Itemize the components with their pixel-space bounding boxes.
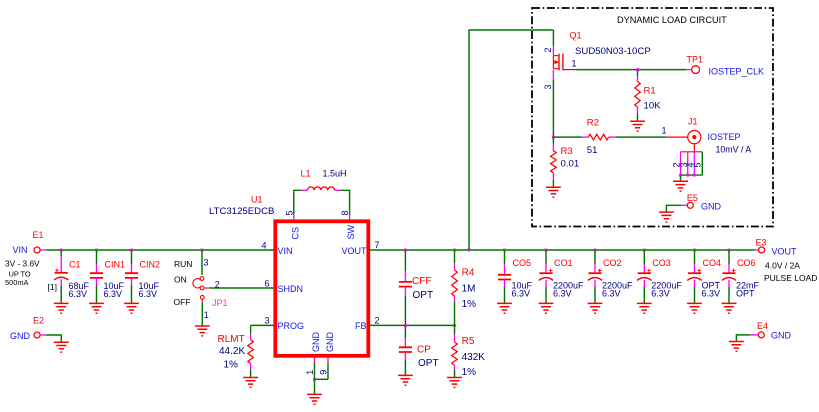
svg-text:10K: 10K xyxy=(644,100,662,111)
svg-text:6: 6 xyxy=(265,279,270,289)
svg-text:432K: 432K xyxy=(462,352,486,363)
ground CO2 xyxy=(588,303,603,313)
wire to C1 xyxy=(60,250,62,256)
R4 bottom lead xyxy=(454,296,456,302)
ground CO4 xyxy=(687,303,702,313)
op-amp U1 LTC3125EDCB body xyxy=(275,221,368,355)
resistor R1 xyxy=(635,82,641,107)
R2 left lead xyxy=(581,136,588,138)
junction CO4/VOUT rail xyxy=(693,249,696,252)
svg-text:OPT: OPT xyxy=(736,289,755,299)
terminal E4 xyxy=(758,332,764,338)
svg-text:TP1: TP1 xyxy=(687,55,704,65)
L1 left lead xyxy=(302,189,308,191)
wire CO6 to ground xyxy=(728,287,730,303)
SW pin stub xyxy=(349,215,351,220)
ground R3 xyxy=(546,187,561,197)
wire CO5 to ground xyxy=(504,287,506,303)
svg-text:R2: R2 xyxy=(587,117,599,128)
E3 pin stub xyxy=(755,249,759,251)
svg-text:6.3V: 6.3V xyxy=(702,289,721,299)
wire to CFF xyxy=(404,250,406,271)
svg-text:3V - 3.6V: 3V - 3.6V xyxy=(5,259,40,269)
wire joining GND pins xyxy=(315,378,329,380)
resistor R2 xyxy=(588,134,608,140)
connector J1 IOSTEP jack xyxy=(688,131,701,144)
svg-text:1: 1 xyxy=(662,126,667,136)
svg-text:10mV / A: 10mV / A xyxy=(716,144,752,154)
wire VIN rail from E1 to U1 VIN pin 4 xyxy=(46,249,273,251)
svg-text:2: 2 xyxy=(375,316,380,326)
svg-text:J1: J1 xyxy=(688,117,698,127)
svg-text:CIN2: CIN2 xyxy=(140,260,161,270)
CO3 bottom lead xyxy=(643,280,645,287)
C1 bottom lead xyxy=(60,279,62,286)
svg-text:R5: R5 xyxy=(462,336,475,347)
svg-text:6.3V: 6.3V xyxy=(512,289,531,299)
svg-text:CO2: CO2 xyxy=(603,258,622,268)
wire E4 to ground xyxy=(736,335,750,342)
svg-text:E1: E1 xyxy=(33,230,44,240)
CFF bottom lead xyxy=(404,287,406,296)
wire down to RLMT xyxy=(250,325,252,333)
TP1 pin stub xyxy=(686,69,691,71)
capacitor CO4 xyxy=(688,272,701,274)
junction R2/R3 xyxy=(552,136,555,139)
svg-text:1%: 1% xyxy=(224,359,239,370)
svg-text:6.3V: 6.3V xyxy=(602,289,621,299)
junction J1 pin 3 xyxy=(686,174,689,177)
wire R2 to J1 xyxy=(616,136,666,138)
capacitor CFF xyxy=(399,282,412,287)
svg-text:PULSE LOAD: PULSE LOAD xyxy=(764,273,817,283)
capacitor CIN1 xyxy=(90,273,103,278)
svg-text:1%: 1% xyxy=(462,367,477,378)
junction CO6/VOUT rail xyxy=(728,249,731,252)
wire CO3 to ground xyxy=(643,287,645,303)
svg-text:C1: C1 xyxy=(69,260,81,270)
wire VOUT to R4 xyxy=(454,250,456,263)
junction dynamic load feed xyxy=(468,249,471,252)
ground RLMT xyxy=(243,378,258,388)
wire CS riser to L1 xyxy=(294,190,302,214)
svg-text:51: 51 xyxy=(587,145,598,156)
svg-text:3: 3 xyxy=(204,258,209,268)
ground E2 xyxy=(54,342,69,352)
junction J1 pin 4 xyxy=(693,174,696,177)
svg-text:RUN: RUN xyxy=(174,259,192,269)
Q1 source lead pin 3 xyxy=(552,70,554,80)
R5 bottom lead xyxy=(454,365,456,370)
R2 right lead xyxy=(609,136,616,138)
svg-text:CO6: CO6 xyxy=(737,258,756,268)
svg-text:6.3V: 6.3V xyxy=(553,289,572,299)
ground J1 xyxy=(673,181,688,191)
wire to CO2 xyxy=(594,250,596,264)
wire to CIN2 xyxy=(131,250,133,264)
junction CFF/VOUT rail xyxy=(404,249,407,252)
svg-text:E4: E4 xyxy=(757,321,768,331)
svg-text:1: 1 xyxy=(572,59,577,69)
CO5 bottom lead xyxy=(504,280,506,288)
wire to U1 ground xyxy=(314,379,316,394)
svg-text:GND: GND xyxy=(325,332,335,353)
svg-text:SUD50N03-10CP: SUD50N03-10CP xyxy=(575,46,651,57)
CO6 top lead xyxy=(728,264,730,273)
resistor R4 xyxy=(452,270,458,296)
wire CO2 to ground xyxy=(594,287,596,303)
capacitor CP xyxy=(399,347,412,352)
svg-text:9: 9 xyxy=(318,370,328,375)
svg-text:1: 1 xyxy=(305,370,315,375)
svg-text:IOSTEP_CLK: IOSTEP_CLK xyxy=(709,67,765,77)
svg-text:4.0V / 2A: 4.0V / 2A xyxy=(765,261,800,271)
svg-text:OPT: OPT xyxy=(418,358,439,369)
CO2 bottom lead xyxy=(594,280,596,287)
svg-text:IOSTEP: IOSTEP xyxy=(708,132,741,142)
capacitor CO1 xyxy=(539,272,552,274)
svg-text:OFF: OFF xyxy=(174,297,191,307)
junction CO2/VOUT rail xyxy=(594,249,597,252)
CP top lead xyxy=(404,338,406,347)
svg-text:[1]: [1] xyxy=(48,282,57,292)
wire L1 to SW riser xyxy=(341,190,350,214)
wire CO1 to ground xyxy=(545,287,547,303)
C1 top lead xyxy=(60,256,62,273)
CO5 top lead xyxy=(504,264,506,275)
svg-text:1: 1 xyxy=(204,310,209,320)
ground CO1 xyxy=(539,303,554,313)
wire R3 to ground xyxy=(552,180,554,187)
CIN2 bottom lead xyxy=(131,278,133,285)
RLMT top lead xyxy=(250,333,252,340)
inductor L1 xyxy=(307,187,334,190)
CS pin stub xyxy=(293,215,295,220)
wire RLMT to ground xyxy=(250,370,252,378)
svg-text:CO1: CO1 xyxy=(554,258,573,268)
svg-text:CFF: CFF xyxy=(412,276,431,287)
svg-text:0.01: 0.01 xyxy=(561,158,580,169)
capacitor CO3 xyxy=(638,272,651,274)
R1 top lead xyxy=(637,76,639,82)
svg-text:Q1: Q1 xyxy=(570,31,582,41)
GND pin 9 stub xyxy=(327,357,329,362)
svg-text:R3: R3 xyxy=(561,146,573,157)
capacitor CO2 xyxy=(588,272,601,274)
junction CIN1/VIN rail xyxy=(95,249,98,252)
capacitor CIN2 xyxy=(125,273,138,278)
ground CO3 xyxy=(637,303,652,313)
CO4 top lead xyxy=(694,264,696,273)
CO2 top lead xyxy=(594,264,596,273)
svg-text:RLMT: RLMT xyxy=(218,334,245,345)
svg-text:3: 3 xyxy=(543,84,553,89)
svg-text:CS: CS xyxy=(290,227,300,240)
junction GND pins xyxy=(313,378,316,381)
wire VOUT rail up to Q1 drain xyxy=(469,30,553,250)
CP bottom lead xyxy=(404,352,406,360)
wire gate to R1 xyxy=(637,70,639,76)
svg-text:E2: E2 xyxy=(33,316,44,326)
GND pin 1 stub xyxy=(314,357,316,362)
test point TP1 xyxy=(692,66,700,74)
wire C1 to ground xyxy=(60,286,62,303)
svg-text:6.3V: 6.3V xyxy=(104,289,123,299)
Q1 drain lead pin 2 xyxy=(552,46,554,56)
junction C1/VIN rail xyxy=(60,249,63,252)
CIN2 top lead xyxy=(131,264,133,273)
CO4 bottom lead xyxy=(694,280,696,287)
wire to CO5 xyxy=(504,250,506,264)
R3 top lead xyxy=(552,144,554,151)
svg-text:JP1: JP1 xyxy=(212,298,228,308)
junction CO1/VOUT rail xyxy=(545,249,548,252)
svg-text:SHDN: SHDN xyxy=(278,284,304,294)
wire CIN1 to ground xyxy=(96,285,98,303)
wire FB to R5 xyxy=(454,325,456,334)
svg-text:R4: R4 xyxy=(462,268,475,279)
resistor RLMT xyxy=(248,340,254,364)
junction CO3/VOUT rail xyxy=(643,249,646,252)
junction R4/VOUT rail xyxy=(453,249,456,252)
svg-text:4: 4 xyxy=(262,241,267,251)
junction FB/R4/R5 xyxy=(453,324,456,327)
wire CP to ground xyxy=(404,360,406,375)
wire CO4 to ground xyxy=(694,287,696,303)
ground R5 xyxy=(447,378,462,388)
ground CP xyxy=(398,375,413,385)
svg-text:VIN: VIN xyxy=(278,246,293,256)
junction R1/gate net xyxy=(636,68,639,71)
wire to CO4 xyxy=(694,250,696,264)
junction FB/CP xyxy=(404,324,407,327)
R3 bottom lead xyxy=(552,173,554,180)
wire GND pin 9 down xyxy=(327,363,329,380)
resistor R3 xyxy=(551,151,557,173)
svg-text:1M: 1M xyxy=(462,283,476,294)
svg-text:CO3: CO3 xyxy=(652,258,671,268)
svg-text:CIN1: CIN1 xyxy=(105,260,126,270)
svg-text:44.2K: 44.2K xyxy=(219,346,245,357)
wire PROG pin 3 to RLMT xyxy=(251,324,274,326)
terminal E2 xyxy=(34,332,40,338)
capacitor CO5 xyxy=(498,275,511,280)
CO6 bottom lead xyxy=(728,280,730,287)
wire source to R2 xyxy=(553,136,581,138)
ground CIN1 xyxy=(89,303,104,313)
R5 top lead xyxy=(454,334,456,342)
connector J1 pin 1 lead xyxy=(666,136,689,138)
svg-text:6.3V: 6.3V xyxy=(651,289,670,299)
junction JP1/VIN rail xyxy=(201,249,204,252)
svg-text:LTC3125EDCB: LTC3125EDCB xyxy=(209,206,274,217)
svg-text:GND: GND xyxy=(771,331,792,341)
capacitor C1 xyxy=(55,272,68,274)
ground E4 xyxy=(729,342,744,352)
svg-text:5: 5 xyxy=(284,210,294,215)
terminal E5 xyxy=(687,202,693,208)
CFF top lead xyxy=(404,271,406,282)
wire JP1 pin 1 to ground xyxy=(201,303,203,326)
svg-text:6.3V: 6.3V xyxy=(139,289,158,299)
wire Q1 source down xyxy=(552,80,554,138)
CO1 bottom lead xyxy=(545,280,547,287)
wire E5 to ground xyxy=(666,205,681,212)
terminal E3 xyxy=(759,247,765,253)
ground CO5 xyxy=(497,303,512,313)
svg-text:R1: R1 xyxy=(644,85,656,96)
wire VOUT rail xyxy=(370,249,755,251)
wire CIN2 to ground xyxy=(131,285,133,303)
svg-text:VOUT: VOUT xyxy=(772,247,798,257)
E1 pin stub xyxy=(40,249,46,251)
L1 right lead xyxy=(335,189,341,191)
E5 pin stub xyxy=(681,204,687,206)
svg-text:CO4: CO4 xyxy=(703,258,722,268)
svg-text:6.3V: 6.3V xyxy=(69,289,88,299)
junction CIN2/VIN rail xyxy=(130,249,133,252)
svg-text:5: 5 xyxy=(693,162,703,167)
svg-text:E3: E3 xyxy=(756,238,767,248)
wire J1 shield to ground xyxy=(680,175,682,181)
svg-text:3: 3 xyxy=(265,316,270,326)
wire CFF to FB net xyxy=(404,296,406,325)
svg-text:500mA: 500mA xyxy=(5,278,28,287)
svg-text:1%: 1% xyxy=(462,299,477,310)
wire VIN rail to JP1 pin 3 xyxy=(201,250,203,275)
wire to CO3 xyxy=(643,250,645,264)
wire R5 to ground xyxy=(454,370,456,378)
svg-text:GND: GND xyxy=(701,202,722,212)
CIN1 bottom lead xyxy=(96,278,98,285)
ground U1 xyxy=(307,394,322,404)
terminal E1 xyxy=(34,247,40,253)
ground CIN2 xyxy=(124,303,139,313)
wire FB to CP xyxy=(404,325,406,338)
junction CO5/VOUT rail xyxy=(503,249,506,252)
svg-text:E5: E5 xyxy=(687,193,698,203)
CO1 top lead xyxy=(545,264,547,273)
R1 bottom lead xyxy=(637,107,639,114)
svg-text:SW: SW xyxy=(346,224,356,239)
svg-text:VIN: VIN xyxy=(13,245,28,255)
wire R4 to FB xyxy=(454,302,456,326)
svg-text:CO5: CO5 xyxy=(513,258,532,268)
R4 top lead xyxy=(454,263,456,270)
svg-text:8: 8 xyxy=(340,210,350,215)
wire to Q1 drain xyxy=(552,30,554,46)
svg-text:CP: CP xyxy=(417,344,431,355)
ground CO6 xyxy=(722,303,737,313)
svg-text:ON: ON xyxy=(174,274,187,284)
svg-text:2: 2 xyxy=(543,47,553,52)
wire to R3 xyxy=(552,137,554,143)
CO3 top lead xyxy=(643,264,645,273)
svg-text:7: 7 xyxy=(375,240,380,250)
RLMT bottom lead xyxy=(250,363,252,369)
svg-text:GND: GND xyxy=(10,331,31,341)
resistor R5 xyxy=(452,342,458,365)
connector J1 shield pins 2,3,4,5 xyxy=(693,144,695,152)
jumper JP1 xyxy=(200,277,204,281)
transistor Q1 SUD50N03-10CP xyxy=(553,56,558,69)
CIN1 top lead xyxy=(96,264,98,273)
svg-text:1.5uH: 1.5uH xyxy=(323,169,347,179)
svg-text:U1: U1 xyxy=(251,195,263,205)
wire to CO6 xyxy=(728,250,730,264)
wire Q1 gate to TP1 xyxy=(576,69,686,71)
wire to CIN1 xyxy=(96,250,98,264)
svg-text:FB: FB xyxy=(355,321,367,331)
dynamic load circuit dashed border box xyxy=(532,8,773,227)
wire GND pin 1 down xyxy=(314,363,316,380)
svg-text:OPT: OPT xyxy=(413,290,434,301)
svg-text:L1: L1 xyxy=(301,169,311,179)
E4 pin stub xyxy=(750,334,758,336)
capacitor CO6 xyxy=(722,272,735,274)
wire FB pin 2 to divider xyxy=(370,324,455,326)
E2 pin stub xyxy=(40,334,46,336)
ground E5 xyxy=(659,212,674,222)
wire R1 to ground xyxy=(637,114,639,122)
wire to CO1 xyxy=(545,250,547,264)
ground C1 xyxy=(54,303,69,313)
svg-text:DYNAMIC LOAD CIRCUIT: DYNAMIC LOAD CIRCUIT xyxy=(617,15,727,25)
ground R1 xyxy=(630,121,645,131)
svg-text:GND: GND xyxy=(311,332,321,353)
wire JP1 pin 2 to SHDN pin 6 xyxy=(210,287,274,289)
wire E2 to ground xyxy=(46,335,61,342)
svg-text:PROG: PROG xyxy=(278,321,305,331)
svg-text:VOUT: VOUT xyxy=(341,246,367,256)
ground JP1 xyxy=(195,326,210,336)
junction J1 pin 2 xyxy=(679,174,682,177)
